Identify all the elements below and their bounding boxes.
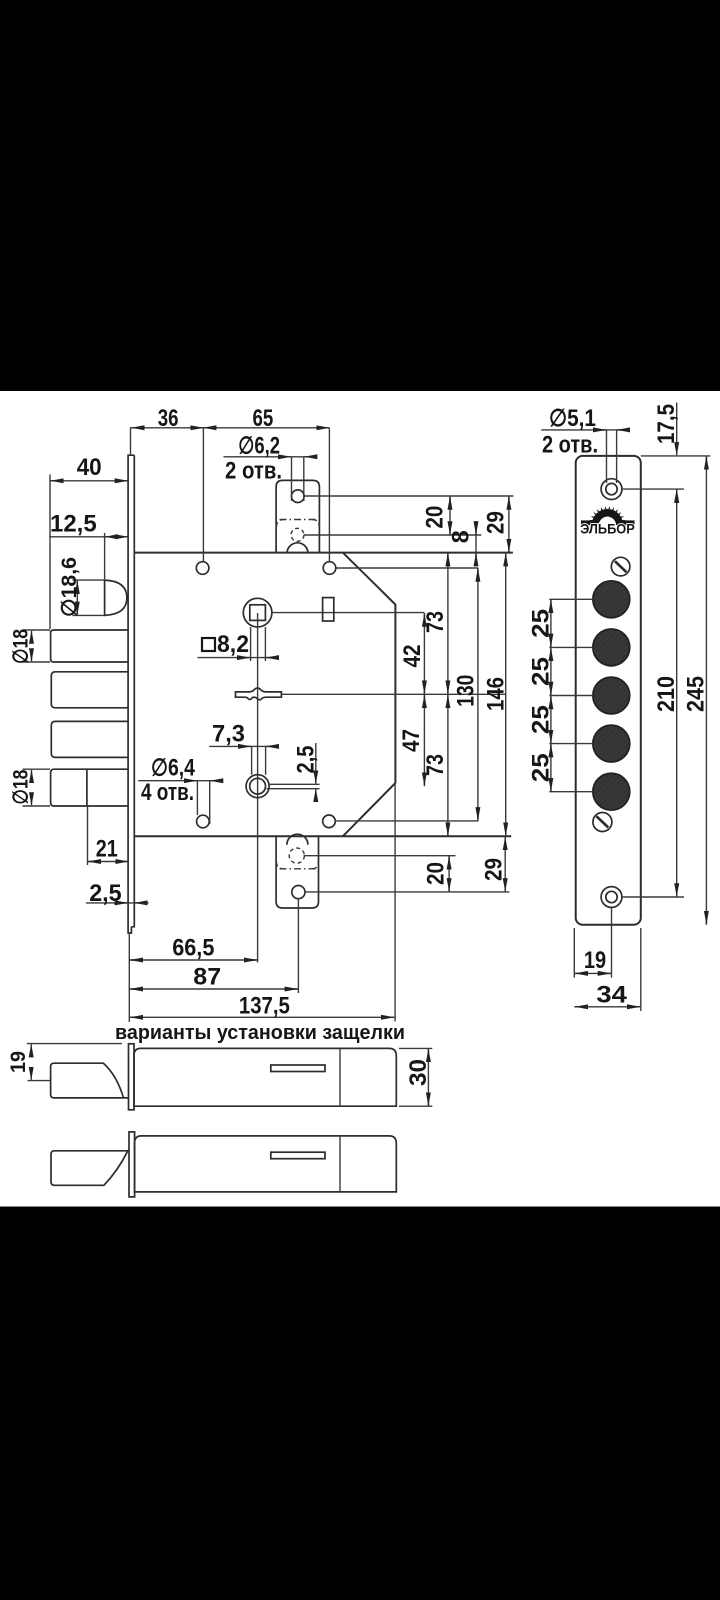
- pin hole C5: [593, 773, 630, 810]
- faceplate (left): [128, 455, 134, 933]
- dim 210: [676, 489, 678, 897]
- right-side extension lines (lower): [304, 821, 510, 892]
- dim 36/65 line: [130, 428, 329, 561]
- dim diameter 6,4 with leader: [138, 781, 222, 824]
- svg-text:36: 36: [158, 405, 179, 432]
- keyhole finger lines: [269, 783, 320, 785]
- dim square 8,2: [198, 627, 280, 661]
- bolt 3: [51, 721, 128, 757]
- bottom screw: [593, 813, 612, 832]
- svg-text:7,3: 7,3: [212, 721, 245, 748]
- svg-text:∅18,6: ∅18,6: [58, 557, 81, 617]
- svg-text:2,5: 2,5: [89, 880, 122, 907]
- ELBOR logo: [580, 506, 635, 536]
- svg-text:варианты установки защелки: варианты установки защелки: [115, 1022, 405, 1044]
- pin hole C1: [593, 581, 630, 618]
- center vertical line: [257, 613, 259, 963]
- dims 25 x4: [549, 599, 593, 791]
- dim 130: [477, 568, 479, 821]
- variant2 faceplate bar: [129, 1132, 135, 1197]
- svg-text:20: 20: [422, 506, 449, 529]
- svg-text:29: 29: [481, 858, 508, 881]
- upper plate dash-dot line: [280, 519, 317, 521]
- dim 17,5: [622, 403, 710, 498]
- variant1 dim 19: [27, 1044, 122, 1081]
- D-bolt extension lines: [72, 579, 104, 581]
- svg-text:ЭЛЬБОР: ЭЛЬБОР: [580, 522, 635, 537]
- svg-text:245: 245: [682, 676, 709, 712]
- bottom dims 66,5 / 87 / 137,5: [129, 783, 395, 1022]
- dim diameter 5,1: [541, 430, 630, 483]
- svg-text:4 отв.: 4 отв.: [141, 779, 194, 806]
- svg-text:146: 146: [482, 677, 509, 711]
- svg-text:30: 30: [405, 1059, 432, 1086]
- top screw hole inner: [606, 483, 617, 494]
- svg-text:∅6,2: ∅6,2: [238, 432, 280, 459]
- lock body outline: [134, 553, 395, 837]
- spindle square 8.2: [250, 605, 266, 621]
- dim 42 / 47 (chain at x=424.4): [423, 613, 425, 786]
- upper plate big arc hole: [287, 543, 308, 554]
- dim 245: [705, 456, 707, 925]
- svg-text:29: 29: [482, 511, 509, 534]
- top black bar: [0, 0, 720, 391]
- dim 29 upper: [508, 496, 510, 553]
- svg-text:73: 73: [422, 611, 449, 633]
- pin hole C4: [593, 725, 630, 762]
- dim 7,3: [209, 746, 278, 774]
- dim 19: [574, 908, 611, 978]
- variant2 divider: [339, 1136, 341, 1192]
- svg-text:19: 19: [584, 947, 606, 974]
- svg-text:∅5,1: ∅5,1: [549, 405, 596, 432]
- D-bolt (latch 18.6): [105, 580, 127, 615]
- variant2 body: [135, 1136, 397, 1192]
- variant1 slot: [271, 1065, 325, 1072]
- upper plate dashed corners: [276, 520, 319, 528]
- svg-text:21: 21: [96, 836, 118, 863]
- mounting hole top-left: [196, 562, 209, 575]
- variant1 divider: [339, 1048, 341, 1106]
- bottom screw hole outer: [601, 887, 622, 908]
- bolt 1: [51, 630, 129, 662]
- bolt 4 collar line: [86, 769, 88, 806]
- dim 8: [475, 521, 477, 561]
- upper strike plate: [276, 480, 319, 552]
- svg-text:∅18: ∅18: [10, 769, 33, 804]
- mounting hole top-right: [323, 562, 336, 575]
- svg-text:2 отв.: 2 отв.: [542, 432, 598, 459]
- svg-text:25: 25: [528, 657, 555, 686]
- svg-text:8: 8: [448, 530, 475, 543]
- svg-text:∅6,4: ∅6,4: [151, 755, 196, 782]
- right-side extension lines (upper): [304, 496, 513, 568]
- dim 20 upper: [449, 496, 451, 535]
- dim diameter 6,2: [223, 457, 316, 501]
- svg-text:8,2: 8,2: [217, 631, 249, 658]
- variant1 body: [134, 1048, 396, 1106]
- dim 40: [50, 475, 128, 630]
- dim 21: [88, 806, 130, 865]
- dim 20 lower: [448, 856, 450, 892]
- lower plate big arc hole: [287, 834, 308, 844]
- variant2 slot: [271, 1152, 325, 1159]
- svg-text:65: 65: [253, 405, 274, 432]
- svg-text:∅18: ∅18: [10, 629, 33, 664]
- svg-text:66,5: 66,5: [172, 935, 214, 962]
- variant1 dim 30: [399, 1048, 432, 1106]
- lower plate dash-dot line: [280, 868, 317, 870]
- dim diameter 18.6: [76, 580, 78, 615]
- dim 2,5 right (keyhole lines): [315, 743, 317, 802]
- svg-text:12,5: 12,5: [50, 511, 97, 538]
- svg-text:210: 210: [653, 676, 680, 712]
- dim 2,5 left: [86, 902, 148, 904]
- keyhole inner circle: [250, 778, 266, 794]
- lever cam: [236, 688, 282, 700]
- bottom black bar: [0, 1207, 720, 1600]
- mounting hole bottom-right: [323, 815, 336, 828]
- svg-text:2 отв.: 2 отв.: [225, 457, 282, 484]
- bolt 4: [51, 769, 129, 806]
- svg-text:73: 73: [422, 754, 449, 776]
- pin hole C3: [593, 677, 630, 714]
- body bottom edge extension to right dims: [343, 835, 512, 837]
- svg-text:47: 47: [398, 729, 425, 752]
- pin hole C2: [593, 629, 630, 666]
- variant1 faceplate bar: [129, 1044, 135, 1110]
- top screw hole outer: [601, 479, 622, 500]
- svg-text:137,5: 137,5: [239, 993, 290, 1020]
- dim 146: [505, 553, 507, 837]
- mounting hole bottom-left: [197, 815, 210, 828]
- square symbol for 8,2: [202, 638, 215, 651]
- body top edge extension to right dims: [343, 552, 513, 554]
- variant2 bolt: [51, 1151, 129, 1186]
- bolt 2: [51, 672, 128, 708]
- dim diameter 18 upper: [23, 630, 51, 662]
- svg-text:25: 25: [528, 753, 555, 782]
- svg-text:40: 40: [77, 454, 102, 481]
- svg-text:19: 19: [7, 1051, 30, 1073]
- keyhole outer circle: [246, 775, 269, 798]
- stop rectangle: [323, 598, 334, 621]
- svg-text:34: 34: [596, 982, 627, 1009]
- variant1 bolt: [51, 1063, 129, 1098]
- faceplate outline: [576, 456, 641, 925]
- dim diameter 18 lower: [23, 769, 51, 806]
- dim 12,5: [49, 533, 129, 579]
- upper plate dashed hole: [291, 528, 304, 541]
- bottom screw hole inner: [606, 891, 617, 902]
- lever center horizontal line: [282, 693, 506, 695]
- svg-text:42: 42: [399, 645, 426, 668]
- lower plate dashed corners: [276, 862, 318, 869]
- svg-text:20: 20: [423, 862, 450, 885]
- svg-text:17,5: 17,5: [653, 404, 680, 444]
- svg-text:25: 25: [528, 705, 555, 734]
- spindle center horizontal line: [272, 612, 424, 614]
- dim 29 lower: [504, 836, 506, 892]
- lower strike plate: [276, 836, 318, 908]
- top screw: [611, 557, 630, 576]
- leader bottom hole: [622, 896, 684, 898]
- dim 34: [574, 928, 641, 1011]
- white drawing area: [0, 391, 720, 1207]
- svg-text:25: 25: [528, 609, 555, 638]
- svg-text:87: 87: [193, 964, 221, 991]
- dim 73 upper / 73 lower (chain at x=447.9): [447, 553, 449, 837]
- lower plate dashed hole: [289, 848, 304, 863]
- svg-text:130: 130: [452, 675, 479, 707]
- upper strike plate hole: [292, 490, 305, 503]
- spindle circle: [243, 598, 272, 627]
- lower plate hole: [292, 886, 305, 899]
- svg-text:2,5: 2,5: [293, 746, 320, 774]
